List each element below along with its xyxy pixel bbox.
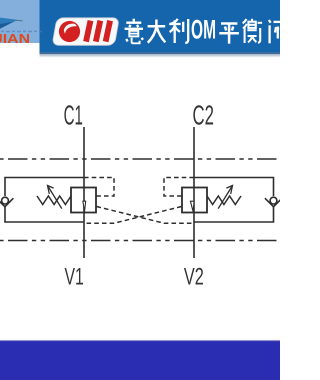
valve body left square xyxy=(71,188,96,213)
wire left bottom rail xyxy=(5,206,84,222)
adjust arrow right xyxy=(218,186,232,209)
title chinese 意 xyxy=(125,19,143,44)
wire C1 to V1 vertical xyxy=(83,127,85,258)
flow arrow right valve xyxy=(190,201,194,212)
wire right top rail xyxy=(194,178,274,197)
title chinese 利 xyxy=(169,19,188,43)
OM logo O white swirl xyxy=(64,24,77,34)
pilot crossover A dashed xyxy=(97,207,195,224)
header fade xyxy=(40,54,281,58)
bottom blue bar xyxy=(0,341,280,380)
flow arrow left valve xyxy=(83,201,86,212)
check valve right seat xyxy=(265,198,282,207)
pilot hook right dashed xyxy=(164,178,194,197)
bottom bar top edge xyxy=(0,340,280,342)
OM logo O disc xyxy=(59,21,80,42)
OM logo M strokes xyxy=(86,21,110,42)
wire left top rail xyxy=(5,178,84,197)
check valve left seat xyxy=(0,198,13,207)
header blue bar xyxy=(40,0,281,54)
svg-text:V2: V2 xyxy=(184,264,204,291)
logo plane swoosh xyxy=(0,18,18,29)
header bottom edge line xyxy=(40,52,281,54)
wire right bottom rail xyxy=(194,206,274,222)
svg-text:C1: C1 xyxy=(64,100,83,131)
check valve right ball xyxy=(270,197,277,204)
centerline dash-dot top xyxy=(0,158,280,160)
spring left xyxy=(37,196,71,205)
svg-text:OM: OM xyxy=(191,14,216,44)
spring right xyxy=(207,196,241,205)
title chinese 平 xyxy=(219,24,239,44)
pilot hook left dashed xyxy=(84,178,114,197)
valve body right square xyxy=(182,188,207,213)
title chinese 阀 (partial at edge) xyxy=(269,20,287,43)
logo small text dots xyxy=(1,31,42,33)
svg-text:V1: V1 xyxy=(65,264,84,291)
check valve left ball xyxy=(2,197,9,204)
centerline dash-dot bottom xyxy=(0,240,280,242)
svg-text:JIAN: JIAN xyxy=(0,32,30,46)
left logo block xyxy=(0,0,40,43)
wire C2 to V2 vertical xyxy=(193,127,195,258)
OM logo white plate xyxy=(52,18,119,46)
svg-text:C2: C2 xyxy=(193,100,214,131)
title chinese 大 xyxy=(148,20,166,43)
pilot crossover B dashed xyxy=(84,207,182,224)
adjust arrow left xyxy=(48,186,62,209)
title chinese 衡 xyxy=(243,19,263,43)
